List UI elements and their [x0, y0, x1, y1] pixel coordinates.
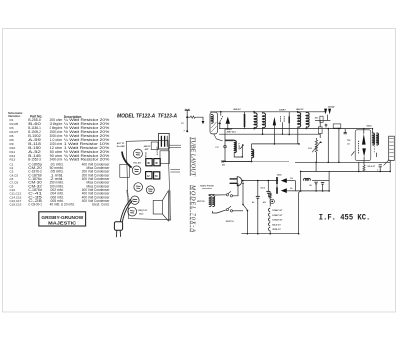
svg-text:AVC: AVC: [315, 117, 319, 120]
svg-text:50L6: 50L6: [367, 125, 373, 127]
svg-text:C-CB-90-1: C-CB-90-1: [28, 203, 42, 207]
speaker and field coil: [377, 136, 394, 172]
padder trimmer C.P.: [224, 145, 227, 148]
V2 12SK7 IF amplifier: [273, 109, 300, 144]
osc cathode coil: [252, 149, 254, 157]
electrolytic C19 20mfd: [260, 180, 270, 197]
svg-text:ANT TO: ANT TO: [117, 142, 125, 145]
svg-text:B-1552-3: B-1552-3: [28, 158, 41, 162]
top B+ bus wire: [210, 111, 325, 113]
output tube 50L6: [355, 125, 376, 172]
svg-text:20mf: 20mf: [260, 187, 265, 189]
filter network box: [295, 129, 339, 192]
osc ground node: [222, 160, 251, 166]
chassis outline: [126, 140, 170, 220]
V3 12SQ7 det-avc-af: [315, 107, 341, 138]
svg-text:456 KC: 456 KC: [233, 108, 241, 111]
IF can pair 1: [146, 159, 160, 166]
power cord wavy: [120, 200, 132, 223]
svg-text:50L6 GT: 50L6 GT: [272, 224, 281, 226]
svg-text:12SK7 IF: 12SK7 IF: [155, 147, 157, 157]
svg-text:4Ω: 4Ω: [263, 201, 266, 204]
tube labels inside circles: [130, 153, 153, 213]
filament string: [268, 208, 283, 234]
osc coil L-1802: [234, 141, 236, 153]
svg-text:Ext AER: Ext AER: [117, 145, 125, 148]
IF can pair 2: [146, 172, 160, 179]
V1 12SA7 converter: [219, 111, 230, 129]
svg-text:12SQ7 GT: 12SQ7 GT: [138, 210, 148, 212]
osc grid resistor: [240, 145, 244, 149]
svg-text:GRISBY-GRUNOW: GRISBY-GRUNOW: [41, 215, 84, 220]
line plug: [114, 222, 122, 237]
Grigsby-Grunow Majestic label box: [39, 212, 86, 226]
coupling condenser C10: [344, 129, 351, 146]
svg-text:35Z5 GT: 35Z5 GT: [272, 229, 281, 231]
grid resistor R-g: [351, 151, 354, 155]
output transformer block: [160, 151, 170, 164]
volume control R-vol: [308, 138, 322, 162]
IF transformer T2: [296, 108, 309, 144]
ground return wire: [241, 191, 300, 235]
svg-text:T/M: T/M: [347, 140, 351, 142]
oscillator section: [215, 129, 244, 161]
filament dropping resistor: [269, 193, 271, 198]
second bus wire: [219, 128, 371, 130]
svg-text:50L6: 50L6: [139, 213, 143, 215]
bottom bus: [241, 233, 298, 235]
svg-text:35Z5: 35Z5: [277, 175, 283, 177]
svg-text:12SA7 GT: 12SA7 GT: [272, 209, 283, 212]
AC line plug: [230, 177, 278, 186]
svg-text:connection: connection: [202, 187, 213, 190]
svg-text:OSC 456: OSC 456: [133, 162, 141, 165]
svg-text:MODEL TF122-A TF123-A: MODEL TF122-A TF123-A: [117, 113, 177, 119]
pilot lamp PL: [263, 192, 274, 207]
svg-text:12SK7 GT: 12SK7 GT: [272, 215, 283, 217]
cathode bus wire: [252, 143, 301, 145]
svg-text:40 mfd. & 20 mfd.: 40 mfd. & 20 mfd.: [50, 203, 75, 207]
chassis tube-layout drawing: [126, 140, 170, 220]
svg-text:45K7 412: 45K7 412: [227, 131, 237, 134]
speaker square and cone: [153, 191, 170, 221]
loop antenna L1: [210, 112, 223, 141]
svg-text:MAJESTIC: MAJESTIC: [48, 221, 76, 226]
svg-text:SWITCH: SWITCH: [226, 221, 234, 223]
output transformer T3: [372, 128, 379, 157]
svg-text:2400 ohm: 2400 ohm: [50, 158, 63, 162]
dial cable thick arc: [122, 152, 132, 168]
svg-text:C.P.: C.P.: [215, 147, 219, 149]
svg-text:MOTOR: MOTOR: [197, 201, 205, 203]
svg-text:MODEL 70X-A: MODEL 70X-A: [190, 184, 196, 232]
svg-text:¼ Watt Resistor 20%: ¼ Watt Resistor 20%: [64, 158, 110, 162]
parts table resistor rows: [10, 118, 110, 162]
antenna symbol: [181, 109, 190, 132]
svg-text:12SA7 OSC: 12SA7 OSC: [144, 152, 147, 164]
on-off switch SW: [226, 183, 249, 234]
IF transformer T1: [233, 108, 265, 135]
svg-text:12SQ7: 12SQ7: [328, 107, 336, 109]
svg-text:L-1802: L-1802: [237, 143, 239, 150]
svg-text:12SK7: 12SK7: [279, 109, 286, 111]
svg-text:TUBE LAYOUT: TUBE LAYOUT: [190, 137, 196, 177]
tube circles: [128, 149, 155, 216]
antenna leads right: [170, 145, 181, 172]
power transformer box: [159, 133, 170, 149]
svg-text:R13: R13: [10, 158, 16, 162]
electrolytic C18 40mfd: [252, 180, 260, 234]
parts table condenser rows: [10, 162, 110, 206]
phono-radio switch and motor: [197, 183, 243, 213]
svg-text:456 KC: 456 KC: [144, 145, 151, 148]
rotated chassis labels: [125, 147, 157, 205]
antenna series condenser: [187, 116, 204, 124]
parts table header: [8, 111, 81, 119]
svg-text:456 KC: 456 KC: [296, 108, 304, 111]
svg-text:50L6 GT: 50L6 GT: [367, 166, 376, 168]
B+ feed bus: [301, 170, 390, 172]
svg-text:Elect. Cond.: Elect. Cond.: [92, 203, 109, 207]
svg-text:C18,C19: C18,C19: [10, 203, 22, 207]
svg-text:I.F. 455 KC.: I.F. 455 KC.: [319, 212, 371, 222]
chassis left accessory box: [120, 164, 130, 177]
rectifier 35Z5: [276, 175, 295, 194]
svg-text:12SQ7 GT: 12SQ7 GT: [272, 220, 283, 222]
AVC bus wire: [219, 133, 320, 135]
shield can small: [151, 142, 158, 150]
lower long bus: [222, 161, 251, 163]
